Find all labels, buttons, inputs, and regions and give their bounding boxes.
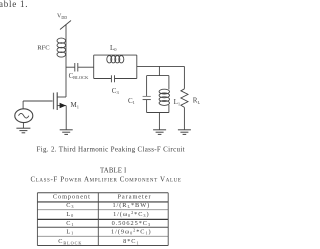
svg-text:L0: L0	[110, 44, 117, 52]
svg-text:L0: L0	[66, 211, 74, 218]
svg-text:1/(RL*BW): 1/(RL*BW)	[112, 202, 150, 209]
svg-text:VDD: VDD	[57, 14, 67, 20]
svg-text:1/(9ω02*C1): 1/(9ω02*C1)	[111, 228, 152, 236]
svg-text:0.50625*C3: 0.50625*C3	[112, 220, 151, 227]
svg-text:able 1.: able 1.	[0, 0, 28, 9]
svg-text:RL: RL	[193, 97, 201, 105]
svg-text:Parameter: Parameter	[117, 194, 151, 201]
svg-text:C1: C1	[66, 220, 74, 227]
svg-text:C1: C1	[128, 97, 135, 105]
svg-text:CBLOCK: CBLOCK	[69, 73, 90, 80]
svg-text:L1: L1	[174, 98, 181, 106]
svg-text:8*C1: 8*C1	[123, 238, 139, 245]
svg-text:M1: M1	[71, 101, 79, 109]
svg-text:Class-F Power Amplifier Compon: Class-F Power Amplifier Component Value	[30, 176, 181, 184]
svg-text:CBLOCK: CBLOCK	[58, 238, 82, 245]
svg-text:TABLE I: TABLE I	[100, 168, 127, 175]
svg-text:C3: C3	[66, 202, 74, 209]
svg-text:1/(ω02*C3): 1/(ω02*C3)	[113, 210, 149, 218]
svg-text:L1: L1	[66, 228, 74, 235]
svg-text:RFC: RFC	[37, 45, 50, 52]
svg-text:Fig. 2. Third Harmonic Peaking: Fig. 2. Third Harmonic Peaking Class-F C…	[37, 145, 185, 153]
svg-text:Component: Component	[53, 194, 91, 201]
svg-text:C3: C3	[112, 87, 120, 95]
